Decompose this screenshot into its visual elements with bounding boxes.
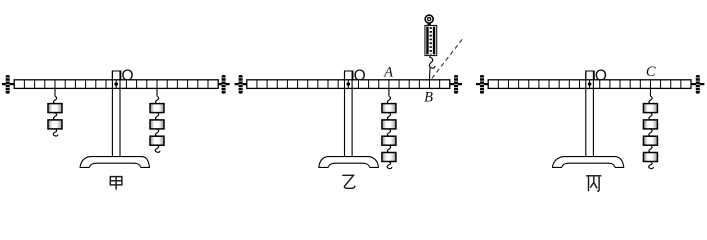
dashed direction line at B [432,37,464,78]
ruler (lever) of JIA [14,80,218,89]
left shaft of YI [235,83,247,85]
svg-text:A: A [383,64,393,80]
support post of BING [586,71,594,157]
right shaft of BING [691,83,704,85]
spring scale body [425,25,437,55]
YI stack at A weight 3 [382,136,396,145]
BING stack at C weight 1 [643,104,657,113]
string of JIA right stack [156,88,158,96]
pivot bracket of BING [586,71,594,80]
spring scale neck [427,23,431,25]
label JIA (Chinese) [110,177,122,190]
string of JIA left stack [54,88,56,96]
pivot dot of JIA [114,82,118,86]
post lines through ruler BING [586,80,594,89]
JIA right stack weight 1 [150,104,164,113]
right shaft of JIA [218,83,229,85]
pivot bracket of YI [345,71,353,80]
svg-text:O: O [121,68,133,85]
JIA right stack weight 3 [150,136,164,145]
YI stack at A weight 1 [382,104,396,113]
left shaft of BING [476,83,488,85]
bottom hook of JIA left stack [53,129,58,136]
balancing nut right of BING [696,75,700,94]
pivot bracket of JIA [112,71,120,80]
post lines through ruler JIA [112,80,120,89]
base of YI [319,157,379,168]
balancing nut left of YI [239,75,243,94]
ruler (lever) of YI [247,80,450,89]
JIA left stack weight 1 [48,104,62,113]
label BING (Chinese) [586,176,601,192]
hook between BING stack at C weights 3-4 [649,145,652,152]
hook between JIA right stack weights 2-3 [155,129,158,136]
balancing nut right of YI [454,75,458,94]
BING stack at C weight 3 [643,136,657,145]
balancing nut right of JIA [222,75,226,94]
svg-text:C: C [646,64,656,80]
svg-text:O: O [354,68,366,85]
hook of JIA left stack [53,96,56,103]
hook between JIA right stack weights 1-2 [155,113,158,120]
post lines through ruler YI [345,80,353,89]
hook between JIA left stack weights 1-2 [53,113,56,120]
hook of YI stack at A [387,96,390,103]
string from hook to B [429,68,432,80]
pivot dot of BING [588,82,592,86]
BING stack at C weight 2 [643,120,657,129]
hook between YI stack at A weights 2-3 [387,129,390,136]
YI stack at A weight 2 [382,120,396,129]
label YI (Chinese) [342,175,355,188]
spring scale hook [429,56,435,69]
hook between YI stack at A weights 3-4 [387,145,390,152]
support post of JIA [112,71,120,157]
hook between BING stack at C weights 2-3 [649,129,652,136]
bottom hook of BING stack at C [649,162,654,169]
YI stack at A weight 4 [382,153,396,162]
left shaft of JIA [2,83,14,85]
bottom hook of JIA right stack [155,145,160,152]
hook between YI stack at A weights 1-2 [387,113,390,120]
base of JIA [80,157,150,168]
support post of YI [345,71,353,157]
balancing nut left of JIA [6,75,10,94]
base of BING [552,157,623,168]
string of BING stack at C [649,88,651,96]
spring scale ring [425,15,433,23]
svg-text:O: O [595,68,607,85]
hook between BING stack at C weights 1-2 [649,113,652,120]
ruler (lever) of BING [488,80,691,89]
hook of JIA right stack [155,96,158,103]
right shaft of YI [450,83,462,85]
string of YI stack at A [388,88,390,96]
BING stack at C weight 4 [643,153,657,162]
bottom hook of YI stack at A [387,162,392,169]
JIA right stack weight 2 [150,120,164,129]
pivot dot of YI [347,82,351,86]
hook of BING stack at C [649,96,652,103]
svg-text:B: B [424,90,433,106]
JIA left stack weight 2 [48,120,62,129]
balancing nut left of BING [480,75,484,94]
